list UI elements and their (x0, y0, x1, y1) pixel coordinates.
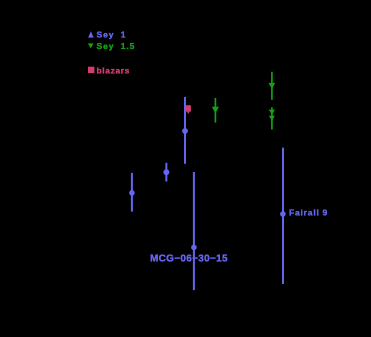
green limit arrow 1 (214, 98, 216, 123)
legend blazars marker (red square) (88, 67, 94, 73)
svg-text:1.5: 1.5 (121, 41, 136, 51)
blue errorbar point 3 (tall) (184, 97, 186, 164)
blazar point (red square with stub) (187, 107, 189, 113)
svg-text:Sey: Sey (97, 30, 115, 40)
blue errorbar point 1 (131, 173, 133, 212)
svg-text:Sey: Sey (97, 41, 115, 51)
svg-text:Fairall: Fairall (289, 208, 320, 218)
green double limit arrows (271, 107, 273, 129)
MCG-06-30-15 errorbar (193, 172, 195, 290)
blue errorbar point 2 (165, 163, 167, 182)
legend Sey 1 marker (blue up triangle) (88, 31, 94, 37)
svg-text:blazars: blazars (97, 65, 131, 75)
svg-text:MCG−06−30−15: MCG−06−30−15 (150, 254, 228, 265)
svg-text:9: 9 (323, 208, 328, 218)
green limit arrow 2 (271, 72, 273, 100)
svg-text:1: 1 (121, 30, 126, 40)
Fairall 9 errorbar (282, 148, 284, 284)
legend Sey 1.5 marker (green down triangle) (88, 43, 94, 48)
